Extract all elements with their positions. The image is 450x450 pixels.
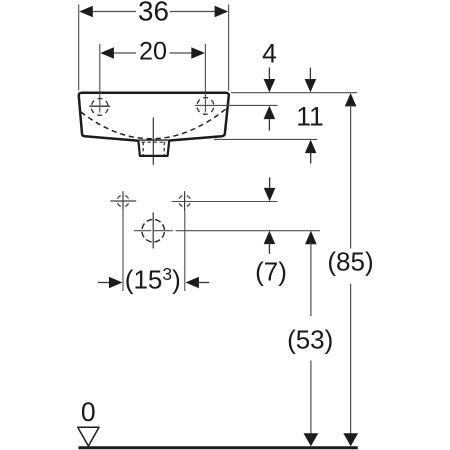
drain level extension line — [134, 230, 320, 232]
dimension 7 label — [255, 256, 287, 286]
dimension 36 label — [138, 0, 169, 27]
dimension 53 line and arrows — [304, 231, 319, 446]
dimension 15-3 arrows — [98, 277, 209, 289]
dimension 11 label — [296, 101, 324, 131]
datum triangle — [78, 427, 99, 446]
dimension 36 extension line left — [78, 5, 80, 91]
drain center line — [152, 118, 154, 165]
basin bowl dashed arc — [81, 107, 229, 139]
svg-text:(7): (7) — [255, 256, 287, 286]
dimension 11 arrows — [305, 68, 317, 164]
svg-text:(153): (153) — [125, 264, 181, 295]
basin bottom extension line — [214, 138, 317, 140]
dimension 20 label — [139, 38, 167, 66]
svg-text:(85): (85) — [327, 247, 373, 277]
dimension 20 extension line right / tap center — [204, 44, 206, 113]
dimension 85 line and arrows — [343, 93, 358, 446]
datum 0 label — [81, 397, 96, 427]
dimension 4 label — [262, 39, 277, 69]
fixing level extension line — [172, 201, 278, 203]
svg-text:4: 4 — [262, 39, 277, 69]
drain outlet — [138, 141, 169, 156]
dimension 20 extension line left / tap center — [99, 44, 101, 113]
dimension 36 line and arrows — [79, 6, 228, 18]
fixing hole right — [179, 191, 191, 211]
drain hole dashed circle — [142, 212, 165, 248]
tap hole right — [197, 98, 214, 115]
drain hidden edge dashed — [142, 141, 167, 143]
dimension 36 extension line right — [228, 5, 230, 91]
svg-text:0: 0 — [81, 397, 96, 427]
fixing hole right extension line down — [184, 211, 186, 291]
dimension 7 arrows — [264, 177, 276, 254]
dimension 53 label — [287, 325, 333, 355]
svg-text:36: 36 — [138, 0, 169, 27]
dimension 15-3 label — [125, 264, 181, 295]
dimension 20 line and arrows — [100, 47, 205, 59]
drain inner dashed lines — [143, 142, 164, 155]
svg-text:(53): (53) — [287, 325, 333, 355]
fixing hole left extension line down — [122, 211, 124, 291]
svg-text:11: 11 — [296, 101, 324, 131]
tap level extension line — [195, 104, 278, 106]
floor line — [79, 446, 358, 449]
svg-text:20: 20 — [139, 38, 167, 66]
fixing hole left — [110, 191, 136, 211]
dimension 4 arrows — [264, 68, 276, 131]
tap hole left — [89, 99, 110, 116]
dimension 85 label — [327, 247, 373, 277]
rim level extension line — [231, 92, 357, 94]
washbasin outline — [79, 93, 229, 141]
